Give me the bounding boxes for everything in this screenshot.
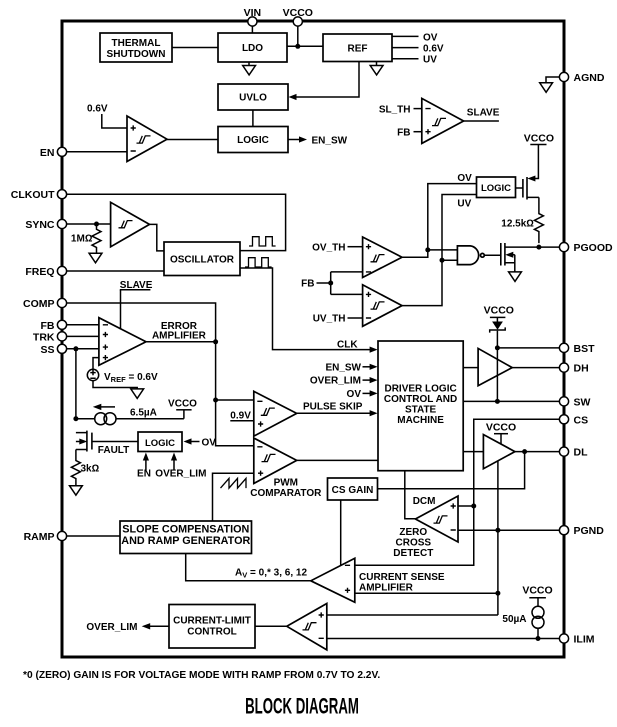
svg-text:OVER_LIM: OVER_LIM: [310, 376, 361, 387]
comparator DCM zero cross detect: [415, 496, 458, 542]
node SYNC-1M junction: [94, 222, 99, 227]
resistor 12.5kohm: [501, 197, 543, 243]
wire 0.6V to EN comparator: [102, 114, 127, 128]
svg-text:1MΩ: 1MΩ: [71, 234, 93, 245]
arrow into UVLO: [289, 94, 297, 100]
block CURRENT-LIMIT CONTROL: [169, 605, 255, 649]
node FB junction: [328, 281, 333, 286]
wire EN comparator to LOGIC: [167, 139, 218, 141]
svg-text:*0 (ZERO) GAIN IS FOR VOLTAGE: *0 (ZERO) GAIN IS FOR VOLTAGE MODE WITH …: [23, 670, 380, 681]
svg-text:0.9V: 0.9V: [230, 410, 251, 421]
block LOGIC (enable): [218, 127, 288, 153]
svg-text:OSCILLATOR: OSCILLATOR: [170, 254, 235, 265]
wire ILIM: [327, 638, 560, 640]
wire 50uA to ILIM: [537, 628, 539, 638]
sawtooth symbol (ramp): [221, 478, 247, 488]
svg-text:VCCO: VCCO: [522, 585, 552, 597]
block LDO U-LDO: [218, 33, 287, 62]
wire AGND to ground: [546, 77, 560, 83]
wire EN to comparator: [66, 151, 127, 153]
pin DL: [559, 447, 588, 459]
pin COMP: [23, 298, 67, 310]
svg-text:STATE: STATE: [405, 404, 437, 415]
svg-text:ILIM: ILIM: [574, 634, 595, 646]
wire EN into fault logic: [145, 458, 147, 471]
svg-text:EN_SW: EN_SW: [312, 136, 348, 147]
comparator UV: [363, 285, 402, 327]
square wave symbol (clkout): [249, 237, 276, 246]
svg-text:VCCO: VCCO: [524, 132, 554, 144]
svg-text:LOGIC: LOGIC: [481, 183, 511, 194]
svg-text:FAULT: FAULT: [98, 445, 129, 456]
wire NAND output to pulldown gate: [484, 254, 500, 256]
wire REF output UV: [392, 58, 419, 60]
comparator OV: [363, 237, 402, 278]
pin SYNC: [25, 219, 66, 231]
ground AGND: [540, 83, 553, 93]
svg-text:OV: OV: [457, 173, 472, 184]
svg-text:6.5µA: 6.5µA: [130, 408, 157, 419]
wire CS amp plus input: [355, 592, 498, 594]
svg-text:DCM: DCM: [413, 496, 436, 507]
pin TRK: [33, 331, 67, 343]
block OSCILLATOR: [164, 242, 240, 276]
arrow OVER_LIM into driver logic: [370, 377, 378, 383]
wire CS GAIN to current sense amp: [340, 500, 342, 566]
svg-text:OV_TH: OV_TH: [312, 242, 345, 253]
wire SLAVE to error amp: [120, 290, 122, 330]
svg-text:AGND: AGND: [574, 72, 605, 84]
svg-text:PWM: PWM: [274, 477, 298, 488]
svg-text:DRIVER LOGIC: DRIVER LOGIC: [384, 383, 456, 394]
wire driver logic to DH driver: [463, 367, 478, 369]
svg-text:EN_SW: EN_SW: [325, 362, 361, 373]
svg-text:AND RAMP GENERATOR: AND RAMP GENERATOR: [121, 535, 250, 547]
svg-text:THERMAL: THERMAL: [112, 38, 161, 49]
wire SL_TH stub: [414, 108, 422, 110]
svg-text:0.6V: 0.6V: [423, 44, 444, 55]
node VCCO-LDO junction: [295, 44, 300, 49]
wire REF to UVLO: [294, 62, 359, 98]
wire ramp to PWM plus input: [213, 473, 254, 521]
block CS GAIN: [328, 478, 378, 500]
svg-text:OVER_LIM: OVER_LIM: [155, 468, 206, 479]
ground below PGOOD pulldown: [509, 272, 522, 282]
svg-text:UV_TH: UV_TH: [313, 314, 346, 325]
ground VREF: [131, 389, 144, 399]
svg-text:VCCO: VCCO: [486, 422, 516, 434]
svg-text:OV: OV: [202, 438, 217, 449]
wire TRK to error amp: [66, 335, 99, 337]
power VCCO (pgood pullup): [524, 132, 554, 166]
wire driver logic to DCM comparator: [405, 471, 416, 519]
block LOGIC (fault): [138, 432, 182, 452]
pin EN: [40, 147, 67, 159]
svg-text:BLOCK DIAGRAM: BLOCK DIAGRAM: [245, 693, 359, 719]
svg-text:VCCO: VCCO: [484, 305, 514, 317]
wire DH output: [512, 367, 560, 369]
wire PULSE SKIP to driver logic: [297, 412, 370, 414]
wire REF output 0.6V: [392, 47, 419, 49]
svg-text:CONTROL AND: CONTROL AND: [384, 394, 457, 405]
svg-text:OVER_LIM: OVER_LIM: [86, 622, 137, 633]
comparator EN (U-EN): [127, 116, 167, 162]
svg-text:AMPLIFIER: AMPLIFIER: [152, 331, 207, 342]
svg-text:PGOOD: PGOOD: [574, 242, 614, 254]
svg-text:SW: SW: [574, 396, 591, 408]
pin PGND: [559, 525, 604, 537]
pin FB: [41, 320, 67, 332]
wire UVLO to LOGIC: [252, 110, 254, 127]
svg-text:SLOPE COMPENSATION: SLOPE COMPENSATION: [122, 524, 249, 536]
pin ILIM: [559, 634, 594, 646]
value label 0.9V with input wire: [230, 410, 254, 421]
node OV-NAND junction: [425, 247, 430, 252]
svg-text:LDO: LDO: [242, 43, 263, 54]
comparator SLAVE (SL_TH/FB): [422, 98, 464, 143]
svg-text:3kΩ: 3kΩ: [81, 464, 100, 475]
power VCCO (bst diode): [484, 305, 514, 322]
gate NAND (pgood): [457, 246, 484, 265]
wire REF output OV: [392, 35, 419, 37]
net label SLAVE (error amp): [120, 280, 153, 291]
node CS amp plus junction: [495, 591, 500, 596]
svg-text:SLAVE: SLAVE: [467, 108, 500, 119]
svg-text:UV: UV: [457, 198, 471, 209]
svg-text:CLKOUT: CLKOUT: [11, 189, 55, 201]
current source 6.5uA: [95, 413, 116, 425]
op-amp ERROR AMPLIFIER: [99, 318, 146, 366]
svg-text:CS: CS: [574, 414, 589, 426]
svg-text:OV: OV: [423, 32, 438, 43]
svg-text:TRK: TRK: [33, 331, 55, 343]
pin CS: [559, 414, 588, 426]
wire CLKOUT from oscillator out1: [66, 194, 285, 250]
wire OV into driver logic: [363, 392, 371, 394]
wire FB to error amp: [66, 324, 99, 326]
pin PGOOD: [559, 242, 613, 254]
wire error amp output: [146, 341, 216, 343]
svg-text:FB: FB: [397, 127, 410, 138]
svg-text:COMP: COMP: [23, 298, 55, 310]
arrow PULSE SKIP into driver logic: [370, 410, 378, 416]
wire PGND: [458, 529, 560, 531]
wire BST to SW: [496, 348, 498, 402]
source VREF 0.6V: [87, 369, 98, 380]
block REF: [323, 34, 392, 62]
svg-text:VIN: VIN: [244, 7, 262, 19]
pin AGND: [559, 72, 604, 84]
wire OV to PG logic: [428, 184, 477, 250]
current source 50uA: [502, 606, 544, 628]
wire FB stub (slave comp): [414, 131, 422, 133]
svg-text:CLK: CLK: [337, 340, 358, 351]
arrow OV into fault logic: [184, 438, 192, 444]
label ERROR AMPLIFIER: [152, 321, 207, 342]
svg-text:UV: UV: [423, 55, 437, 66]
pin CLKOUT: [11, 189, 67, 201]
IC boundary: [62, 21, 564, 657]
wire OVER_LIM into driver logic: [363, 379, 371, 381]
wire OVER_LIM output: [148, 625, 170, 627]
svg-text:12.5kΩ: 12.5kΩ: [501, 219, 534, 230]
svg-text:DETECT: DETECT: [393, 548, 433, 559]
label CURRENT SENSE AMPLIFIER: [359, 572, 445, 593]
transistor PGOOD pulldown NMOS: [501, 243, 533, 272]
node PGOOD junction: [536, 245, 541, 250]
wire UV_TH stub: [348, 317, 363, 319]
arrow 6.5uA direction: [93, 404, 115, 410]
wire current limit comparator output: [255, 625, 287, 627]
arrow CLK into driver logic: [370, 347, 378, 353]
svg-text:FREQ: FREQ: [25, 266, 54, 278]
node SS junction: [73, 346, 78, 351]
node SS-6.5uA junction: [73, 416, 78, 421]
wire SW: [463, 400, 560, 402]
svg-text:CROSS: CROSS: [396, 537, 432, 548]
block UVLO: [218, 84, 288, 110]
wire SYNC to buffer: [66, 223, 110, 225]
svg-text:FB: FB: [41, 320, 55, 332]
wire OV_TH stub: [348, 246, 363, 248]
pin SS: [40, 344, 66, 356]
wire COMP to PWM comparator: [66, 303, 254, 446]
block THERMAL SHUTDOWN: [100, 33, 172, 62]
svg-text:REF: REF: [348, 44, 368, 55]
svg-text:OV: OV: [347, 389, 362, 400]
svg-text:CS GAIN: CS GAIN: [332, 485, 374, 496]
driver DH (high side): [478, 348, 512, 385]
diode zener BST: [490, 322, 506, 348]
svg-text:RAMP: RAMP: [24, 531, 55, 543]
resistor 1Mohm: [71, 224, 101, 253]
comparator CURRENT LIMIT: [287, 604, 327, 650]
node DL junction: [522, 449, 527, 454]
wire OV into fault logic: [190, 441, 200, 443]
comparator PWM: [254, 438, 297, 484]
wire UV to PG logic: [442, 195, 477, 261]
wire LDO to REF: [287, 45, 323, 47]
svg-text:CONTROL: CONTROL: [187, 627, 236, 638]
svg-text:EN: EN: [40, 147, 55, 159]
block LOGIC (pgood): [477, 177, 516, 198]
wire CS pin to current sense amp: [355, 419, 560, 565]
wire SYNC buffer to oscillator: [150, 224, 165, 251]
driver DL (low side): [483, 435, 515, 469]
wire DCM plus input to CS line: [458, 505, 474, 507]
node COMP-0.9V comparator junction: [213, 398, 218, 403]
svg-text:UVLO: UVLO: [239, 93, 267, 104]
square wave symbol (clk): [245, 258, 272, 267]
svg-text:COMPARATOR: COMPARATOR: [250, 488, 322, 499]
svg-text:BST: BST: [574, 343, 596, 355]
ground below 1Mohm: [89, 253, 102, 262]
svg-text:CURRENT SENSE: CURRENT SENSE: [359, 572, 445, 583]
wire 6.5uA current path: [76, 418, 184, 420]
wire SS node down to fault pulldown: [75, 349, 77, 419]
svg-text:PGND: PGND: [574, 525, 605, 537]
svg-text:SHUTDOWN: SHUTDOWN: [107, 49, 166, 60]
wire BST: [497, 347, 559, 349]
wire VIN to LDO: [251, 26, 253, 33]
node ILIM junction: [536, 636, 541, 641]
arrow EN up: [143, 453, 149, 461]
svg-text:SL_TH: SL_TH: [379, 104, 411, 115]
wire oscillator CLK to driver logic: [240, 268, 370, 350]
wire PGOOD node: [533, 246, 560, 248]
node PGND junction: [495, 528, 500, 533]
node UV-NAND junction: [440, 258, 445, 263]
power VCCO (6.5uA): [168, 398, 197, 418]
svg-text:VREF = 0.6V: VREF = 0.6V: [104, 372, 158, 384]
svg-text:FB: FB: [301, 279, 314, 290]
node COMP-EA output junction: [213, 339, 218, 344]
comparator 0.9V pulse skip: [254, 391, 297, 436]
wire OV comparator output to NAND: [402, 250, 457, 257]
arrow OVER_LIM output: [142, 623, 151, 629]
svg-text:LOGIC: LOGIC: [237, 135, 269, 146]
op-amp CURRENT SENSE AMPLIFIER: [311, 558, 355, 602]
pin VCCO top: [283, 7, 313, 26]
wire FB to ov/uv comparators: [317, 272, 363, 295]
svg-text:0.6V: 0.6V: [87, 104, 108, 115]
svg-text:EN: EN: [137, 468, 151, 479]
wire DL driver to PGND and CS amp plus: [497, 461, 499, 615]
svg-text:VCCO: VCCO: [168, 398, 197, 409]
pin RAMP: [24, 531, 67, 543]
arrow EN_SW: [299, 136, 307, 142]
svg-text:DH: DH: [574, 363, 589, 375]
wire EN_SW into driver logic: [363, 366, 371, 368]
pin BST: [559, 343, 595, 355]
resistor 3kohm: [71, 450, 99, 486]
svg-text:CURRENT-LIMIT: CURRENT-LIMIT: [173, 616, 251, 627]
wire SLAVE output: [464, 120, 499, 122]
node BST junction: [495, 345, 500, 350]
ground below REF: [370, 62, 383, 75]
ground below 3kohm: [70, 486, 83, 496]
svg-text:PULSE SKIP: PULSE SKIP: [303, 402, 363, 413]
wire to current limit comparator plus: [327, 614, 498, 616]
block DRIVER LOGIC CONTROL AND STATE MACHINE: [378, 341, 463, 471]
wire PWM output to driver logic: [297, 459, 378, 461]
svg-text:ZERO: ZERO: [399, 527, 427, 538]
label ZERO CROSS DETECT: [393, 527, 433, 559]
transistor FAULT MOSFET: [76, 431, 138, 452]
wire SS to error amp: [66, 348, 99, 350]
wire FREQ to oscillator: [66, 270, 164, 272]
pin FREQ: [25, 266, 66, 278]
wire driver logic to DL driver: [463, 451, 483, 453]
wire UV comparator output to NAND: [402, 260, 457, 305]
wire VCCO to LDO output: [297, 26, 299, 47]
power VCCO (dl driver): [486, 422, 516, 445]
block SLOPE COMPENSATION AND RAMP GENERATOR: [120, 521, 252, 554]
svg-text:MACHINE: MACHINE: [397, 415, 444, 426]
wire EN_SW output: [288, 139, 300, 141]
pin DH: [559, 363, 588, 375]
wire RAMP to slope comp: [66, 535, 120, 537]
transistor PGOOD pull-up MOSFET: [516, 166, 539, 200]
arrow EN_SW into driver logic: [370, 364, 378, 370]
svg-text:SYNC: SYNC: [25, 219, 55, 231]
pin VIN: [244, 7, 262, 26]
svg-text:AMPLIFIER: AMPLIFIER: [359, 583, 414, 594]
svg-text:AV = 0,* 3, 6, 12: AV = 0,* 3, 6, 12: [235, 567, 307, 579]
svg-text:SS: SS: [40, 344, 54, 356]
svg-text:DL: DL: [574, 447, 589, 459]
ground below LDO: [243, 62, 256, 75]
node DCM-CS junction: [471, 504, 476, 509]
svg-text:50µA: 50µA: [502, 614, 526, 625]
wire VREF to ground: [93, 381, 137, 390]
svg-text:VCCO: VCCO: [283, 7, 313, 19]
buffer SYNC (schmitt): [111, 202, 150, 247]
arrow OV into driver logic: [370, 390, 378, 396]
arrow OVER_LIM up: [171, 453, 177, 461]
power VCCO (50uA): [522, 585, 552, 607]
wire OVER_LIM into fault logic: [173, 458, 175, 471]
wire DL output: [515, 451, 560, 453]
wire slope comp to current sense amp (AV): [186, 554, 311, 581]
label PWM COMPARATOR: [250, 477, 322, 499]
node SW junction: [495, 399, 500, 404]
svg-text:LOGIC: LOGIC: [145, 438, 175, 449]
wire 0.9V comparator minus input: [216, 399, 254, 401]
wire VREF to error amp: [93, 358, 99, 370]
pin SW: [559, 396, 590, 408]
wire DL node to CS GAIN: [378, 452, 525, 489]
wire thermal shutdown to LDO: [172, 47, 218, 49]
